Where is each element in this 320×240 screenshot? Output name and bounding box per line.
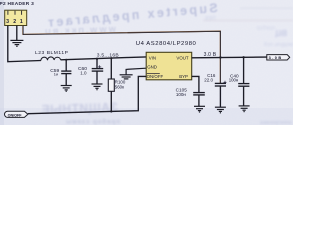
svg-text:U4 AS2804/LP2980: U4 AS2804/LP2980 [136, 41, 197, 47]
svg-text:ON/OFF: ON/OFF [147, 74, 164, 79]
svg-text:P2 HEADER 3: P2 HEADER 3 [0, 1, 34, 7]
svg-text:3.0 В: 3.0 В [204, 52, 217, 58]
svg-text:VIN: VIN [149, 56, 156, 61]
svg-text:модуль псб: модуль псб [264, 42, 293, 48]
svg-text:ВЦ: ВЦ [275, 29, 287, 38]
svg-text:VOUT: VOUT [176, 56, 189, 61]
svg-text:прибор схемы: прибор схемы [65, 119, 120, 126]
svg-text:22.0: 22.0 [204, 78, 213, 83]
svg-text:прибор: прибор [257, 26, 275, 32]
svg-text:тех: тех [205, 15, 216, 22]
svg-text:100н: 100н [176, 92, 187, 97]
svg-text:100н: 100н [229, 78, 239, 83]
svg-text:3: 3 [6, 19, 9, 25]
svg-text:1.0: 1.0 [80, 70, 87, 75]
svg-text:ЗАЩИТНЫЕ: ЗАЩИТНЫЕ [41, 100, 118, 117]
svg-text:L23 BLM11P: L23 BLM11P [35, 50, 68, 56]
svg-text:электроника: электроника [259, 120, 292, 125]
svg-text:3.0В: 3.0В [269, 56, 283, 60]
svg-text:BYP: BYP [179, 74, 188, 79]
svg-text:1м: 1м [54, 72, 59, 76]
svg-text:GND: GND [147, 65, 157, 70]
svg-text:2: 2 [13, 19, 16, 25]
svg-text:1: 1 [20, 19, 23, 25]
svg-text:3.5...16В: 3.5...16В [97, 52, 119, 58]
svg-text:560к: 560к [115, 85, 124, 90]
svg-text:ON/OFF: ON/OFF [8, 113, 23, 117]
